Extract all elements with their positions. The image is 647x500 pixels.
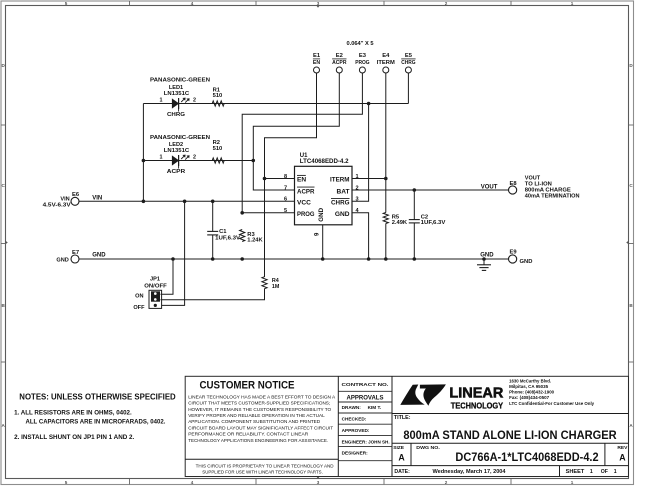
svg-text:TECHNOLOGY APPLICATIONS ENGINE: TECHNOLOGY APPLICATIONS ENGINEERING FOR … (188, 438, 328, 444)
wire LED1/CHRG row (143, 103, 408, 105)
svg-text:GND: GND (92, 252, 106, 258)
wire E5 down to CHRG row (407, 73, 409, 104)
svg-text:3: 3 (317, 480, 320, 485)
svg-text:LN1351C: LN1351C (164, 91, 190, 97)
svg-text:ON: ON (135, 294, 143, 300)
svg-text:1. ALL RESISTORS ARE IN OHMS,: 1. ALL RESISTORS ARE IN OHMS, 0402. (14, 410, 132, 416)
svg-text:EN: EN (313, 60, 320, 66)
svg-text:5: 5 (65, 1, 68, 6)
junction dot CHRG row (367, 102, 371, 106)
svg-text:Phone: (408)432-1900: Phone: (408)432-1900 (509, 390, 554, 396)
svg-text:800mA STAND ALONE LI-ION CHARG: 800mA STAND ALONE LI-ION CHARGER (403, 428, 616, 442)
svg-text:2: 2 (445, 480, 448, 485)
svg-text:C1: C1 (219, 229, 227, 235)
svg-text:APPROVALS: APPROVALS (347, 395, 384, 402)
svg-text:SUPPLIED FOR USE WITH LINEAR T: SUPPLIED FOR USE WITH LINEAR TECHNOLOGY … (202, 469, 322, 475)
svg-text:1: 1 (614, 469, 617, 475)
LED2 emission arrows (181, 155, 185, 159)
wire E4/ITERM vertical (385, 73, 387, 213)
svg-text:1UF,6.3V: 1UF,6.3V (421, 220, 446, 226)
resistor R2 510 (212, 158, 224, 163)
svg-text:ACPR: ACPR (332, 60, 347, 66)
svg-text:DWG NO.: DWG NO. (416, 445, 440, 451)
svg-text:E5: E5 (405, 53, 413, 59)
svg-text:1: 1 (571, 1, 574, 6)
wire JP1 pin1 to GND rail (161, 259, 174, 294)
jumper JP1 (149, 290, 162, 308)
svg-text:1630 McCarthy Blvd.: 1630 McCarthy Blvd. (509, 379, 552, 385)
border zone ticks right (629, 124, 634, 126)
wire EN down to R4 (264, 179, 266, 278)
svg-text:APPROVED:: APPROVED: (342, 428, 370, 433)
svg-text:8: 8 (284, 174, 287, 180)
net label CHRG stub (178, 104, 180, 112)
border zone ticks bottom (129, 479, 131, 485)
title block frame (185, 376, 628, 476)
svg-text:ON/OFF: ON/OFF (144, 283, 167, 289)
svg-text:E2: E2 (336, 53, 343, 59)
svg-text:CHECKED:: CHECKED: (342, 417, 367, 422)
junction dots GND rail (171, 257, 175, 261)
svg-text:1UF,6.3V: 1UF,6.3V (215, 236, 240, 242)
svg-text:REV: REV (617, 445, 628, 451)
svg-text:HOWEVER, IT REMAINS THE CUSTOM: HOWEVER, IT REMAINS THE CUSTOMER'S RESPO… (188, 407, 331, 413)
wire R4 to JP1 pin2 (161, 289, 265, 300)
border zone ticks top (129, 1, 131, 6)
wire LED2/ACPR row (143, 160, 253, 162)
svg-text:5: 5 (65, 480, 68, 485)
svg-text:3: 3 (317, 1, 320, 6)
ground symbol (483, 259, 485, 265)
svg-text:ITERM: ITERM (330, 177, 350, 184)
logo cell (392, 413, 629, 415)
svg-text:KIM T.: KIM T. (368, 405, 382, 410)
date row (392, 465, 629, 467)
svg-text:DC766A-1*LTC4068EDD-4.2: DC766A-1*LTC4068EDD-4.2 (455, 450, 598, 464)
svg-text:2: 2 (355, 185, 358, 191)
svg-text:GND: GND (480, 253, 494, 259)
resistor R1 510 (212, 101, 224, 106)
wire R5 bottom to GND (385, 224, 387, 260)
svg-text:LINEAR: LINEAR (449, 386, 504, 402)
svg-text:Milpitas, CA 95035: Milpitas, CA 95035 (509, 384, 548, 390)
svg-text:2: 2 (445, 1, 448, 6)
svg-text:GND: GND (520, 259, 533, 265)
net label ACPR stub (178, 161, 180, 169)
junction dot BAT/C2 (413, 188, 417, 192)
svg-text:E1: E1 (313, 53, 321, 59)
approvals column (391, 376, 393, 476)
svg-text:4.5V-6.3V: 4.5V-6.3V (43, 202, 72, 208)
svg-text:E3: E3 (359, 53, 367, 59)
svg-text:SHEET: SHEET (566, 469, 585, 475)
svg-text:PERFORMANCE OR RELIABILITY.: PERFORMANCE OR RELIABILITY. CONTACT LINE… (188, 432, 308, 438)
svg-text:CIRCUIT BOARD LAYOUT MAY SIGNI: CIRCUIT BOARD LAYOUT MAY SIGNIFICANTLY A… (188, 425, 333, 431)
border center arrows (316, 6, 319, 8)
svg-text:800mA CHARGE: 800mA CHARGE (525, 187, 571, 193)
svg-text:1: 1 (590, 469, 593, 475)
junction dot EN pin (263, 177, 267, 181)
capacitor C1 (207, 230, 218, 232)
svg-text:2: 2 (193, 155, 196, 161)
wire BAT to VOUT (352, 189, 509, 191)
svg-text:1.24K: 1.24K (247, 237, 263, 243)
LED1 emission arrows (181, 98, 185, 102)
wire ITERM pin stub (352, 178, 386, 180)
title cell (392, 442, 629, 444)
wire pin9 to GND rail (322, 225, 324, 259)
wire EN pin stub (265, 178, 295, 180)
svg-text:CUSTOMER NOTICE: CUSTOMER NOTICE (200, 380, 295, 392)
wire left vertical LED feed (142, 104, 144, 202)
svg-text:A: A (619, 452, 626, 462)
wire GND rail (79, 258, 509, 260)
svg-text:6: 6 (284, 197, 287, 203)
size/dwg/rev row (410, 443, 412, 465)
svg-text:510: 510 (213, 93, 223, 99)
wire C1 vertical (212, 201, 214, 231)
wire VIN rail (79, 200, 295, 202)
LED LED2 (LN1351C) (172, 156, 178, 165)
svg-text:40mA TERMINATION: 40mA TERMINATION (525, 193, 580, 199)
svg-text:1: 1 (160, 97, 163, 103)
svg-text:2.49K: 2.49K (392, 220, 408, 226)
wire JP1 pin3 to VIN rail (162, 201, 185, 305)
svg-text:GND: GND (335, 211, 350, 218)
svg-text:ACPR: ACPR (297, 188, 315, 195)
svg-text:PROG: PROG (355, 60, 370, 66)
svg-text:ENGINEER: JOHN SH.: ENGINEER: JOHN SH. (342, 440, 390, 445)
svg-text:Fax: (408)434-0507: Fax: (408)434-0507 (509, 395, 549, 401)
wire E2 to ACPR pin (253, 73, 339, 190)
svg-text:CONTRACT NO.: CONTRACT NO. (342, 382, 390, 388)
svg-text:DRAWN:: DRAWN: (342, 405, 362, 410)
resistor R4 1M (262, 277, 267, 289)
svg-text:EN: EN (297, 177, 306, 184)
svg-text:BAT: BAT (336, 188, 349, 195)
LED LED1 (LN1351C) (172, 99, 178, 108)
svg-text:CHRG: CHRG (167, 112, 186, 118)
svg-text:1: 1 (160, 154, 163, 160)
capacitor C2 (409, 219, 420, 221)
svg-text:ITERM: ITERM (377, 60, 395, 66)
border zone ticks left (1, 124, 6, 126)
svg-text:LTC4068EDD-4.2: LTC4068EDD-4.2 (300, 159, 349, 165)
svg-text:GND: GND (318, 207, 325, 221)
svg-text:1M: 1M (272, 284, 280, 290)
svg-text:TITLE:: TITLE: (394, 415, 411, 421)
wire E1 to EN pin (265, 73, 317, 179)
wire GND pin4 to rail (352, 213, 369, 259)
LT logo swoosh (400, 384, 446, 405)
svg-text:APPLICATION. COMPONENT SUBSTI: APPLICATION. COMPONENT SUBSTITUTION AND … (188, 419, 320, 425)
junction dot ITERM pin (384, 177, 388, 181)
customer notice box (337, 376, 339, 476)
svg-text:OFF: OFF (133, 305, 145, 311)
junction dot PROG pin (240, 211, 244, 215)
svg-text:7: 7 (284, 185, 287, 191)
svg-text:1: 1 (571, 480, 574, 485)
svg-text:2: 2 (193, 98, 196, 104)
svg-text:PANASONIC-GREEN: PANASONIC-GREEN (150, 78, 210, 84)
svg-text:4: 4 (191, 480, 194, 485)
junction dot LED2/ACPR (252, 159, 256, 163)
svg-text:VOUT: VOUT (481, 184, 498, 190)
svg-text:510: 510 (213, 146, 223, 152)
svg-text:A: A (398, 452, 405, 462)
svg-text:Wednesday, March 17, 2004: Wednesday, March 17, 2004 (433, 469, 506, 475)
svg-text:DATE:: DATE: (394, 469, 410, 475)
svg-text:JP1: JP1 (150, 277, 160, 283)
svg-text:5: 5 (284, 208, 287, 214)
svg-text:CHRG: CHRG (331, 200, 350, 207)
svg-text:OF: OF (601, 469, 608, 475)
svg-text:3: 3 (355, 197, 358, 203)
svg-text:NOTES: UNLESS OTHERWISE SPECI: NOTES: UNLESS OTHERWISE SPECIFIED (19, 391, 175, 401)
wire C2 vertical (413, 190, 415, 220)
resistor R3 1.24K (240, 230, 245, 242)
op IC U1 LTC4068EDD-4.2 (295, 166, 353, 225)
svg-text:4: 4 (191, 1, 194, 6)
junction dots VIN rail (142, 200, 146, 204)
resistor R5 2.49K (383, 213, 388, 224)
svg-text:ACPR: ACPR (167, 169, 186, 175)
svg-text:GND: GND (56, 257, 68, 263)
svg-text:VCC: VCC (297, 200, 311, 207)
svg-text:0.064" X 5: 0.064" X 5 (347, 41, 374, 47)
svg-text:VIN: VIN (92, 195, 102, 201)
svg-text:LINEAR TECHNOLOGY HAS MADE A B: LINEAR TECHNOLOGY HAS MADE A BEST EFFORT… (188, 394, 336, 400)
svg-text:THIS CIRCUIT IS PROPRIETARY TO: THIS CIRCUIT IS PROPRIETARY TO LINEAR TE… (196, 463, 334, 469)
svg-text:E4: E4 (382, 53, 390, 59)
svg-text:LTC Confidential-For Customer: LTC Confidential-For Customer Use Only (509, 401, 594, 407)
svg-text:VERIFY PROPER AND RELIABLE OPE: VERIFY PROPER AND RELIABLE OPERATION IN … (188, 413, 325, 419)
svg-text:TECHNOLOGY: TECHNOLOGY (451, 401, 504, 410)
wire CHRG pin to LED row (352, 104, 369, 202)
svg-text:SIZE: SIZE (393, 445, 405, 451)
svg-text:PANASONIC-GREEN: PANASONIC-GREEN (150, 135, 210, 141)
svg-text:CIRCUIT THAT MEETS CUSTOMER-SU: CIRCUIT THAT MEETS CUSTOMER-SUPPLIED SPE… (188, 401, 330, 407)
svg-text:ALL CAPACITORS ARE IN MICROFAR: ALL CAPACITORS ARE IN MICROFARADS, 0402. (26, 420, 166, 426)
svg-text:PROG: PROG (297, 211, 315, 218)
svg-text:LN1351C: LN1351C (164, 148, 190, 154)
svg-text:DESIGNER:: DESIGNER: (342, 450, 368, 455)
svg-text:2. INSTALL SHUNT ON JP1 PIN 1: 2. INSTALL SHUNT ON JP1 PIN 1 AND 2. (14, 435, 135, 441)
junction dot LED2 left (142, 159, 146, 163)
svg-text:1: 1 (355, 174, 358, 180)
wire E3 to PROG pin (242, 73, 362, 213)
svg-text:CHRG: CHRG (401, 60, 416, 66)
